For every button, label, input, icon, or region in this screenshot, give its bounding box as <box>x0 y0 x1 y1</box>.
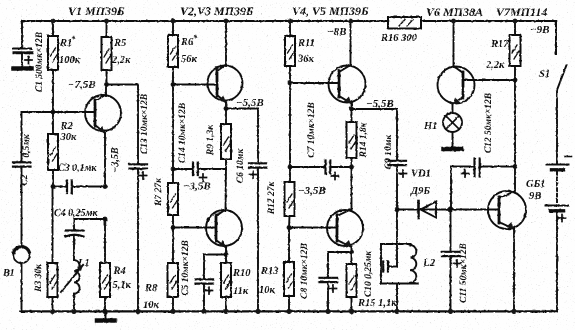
label R2 value <box>60 121 78 143</box>
wire collector V1 to C13 <box>107 85 139 164</box>
label R10 value <box>232 268 251 297</box>
wire base of V5 <box>289 227 337 229</box>
label C9 value <box>384 134 394 169</box>
capacitor C2 <box>13 162 31 166</box>
label C4 value <box>54 208 99 219</box>
label R16 value <box>380 33 418 44</box>
wire R17/V6 base to V7 collector <box>513 80 518 192</box>
resistor R9 <box>221 109 231 170</box>
resistor R15 <box>347 252 357 314</box>
resistor R12 <box>285 167 295 230</box>
capacitor C1 (electrolytic to ground at far left) <box>13 21 32 67</box>
label voltage -7,5В <box>68 79 96 91</box>
resistor R16 (series in rail) <box>388 17 421 29</box>
transistor V2 <box>208 19 243 111</box>
label voltage -5,5В (V4 emitter) <box>366 98 394 110</box>
transistor V7 <box>488 191 526 314</box>
label voltage -3,5В (V1 emitter) <box>110 147 121 173</box>
resistor R4 <box>100 219 110 314</box>
capacitor C7 <box>290 161 352 180</box>
label voltage -3,5В (V5 base) <box>298 185 326 197</box>
wire base of V1 <box>22 111 96 113</box>
capacitor C6 <box>226 109 267 315</box>
label B1 <box>2 268 15 279</box>
label voltage -5,5В (V2 emitter) <box>236 97 264 109</box>
wire R6 bottom to C14 <box>171 85 176 172</box>
capacitor C3 <box>53 181 105 194</box>
resistor R1 <box>48 21 58 112</box>
wire top supply rail left of R16 <box>22 20 388 22</box>
lamp H1 <box>443 113 462 147</box>
label R12 value <box>267 181 277 216</box>
transistor V1 <box>85 85 121 187</box>
label header V1 <box>68 4 125 18</box>
resistor R7 <box>168 169 178 230</box>
wire R11 bottom to R12 <box>288 83 293 169</box>
inductor L2 <box>381 244 418 314</box>
transistor V4 <box>329 19 366 112</box>
label voltage -8В <box>327 26 347 38</box>
label header V2,V3 <box>180 4 254 18</box>
label R14 value <box>359 121 369 158</box>
label C5 value <box>181 240 191 296</box>
diode VD1 <box>397 201 454 218</box>
label voltage -9В <box>530 24 550 36</box>
label header V4,V5 <box>292 4 369 18</box>
ground (below H1) <box>444 147 462 152</box>
resistor R11 <box>285 19 295 86</box>
label VD1 <box>410 169 431 198</box>
inductor L1 (variable) <box>61 260 83 314</box>
label C14 value <box>178 103 188 163</box>
capacitor C14 <box>173 163 226 182</box>
microphone B1 <box>13 112 29 311</box>
transistor V3 <box>206 169 242 257</box>
label C11 value <box>459 243 469 303</box>
label R17 value <box>485 39 509 71</box>
label R13 value <box>259 266 279 296</box>
wire top supply rail right of R16 <box>421 21 556 54</box>
label R7 value <box>154 177 164 207</box>
node R2 bottom / C3 <box>51 184 56 189</box>
resistor R3 <box>48 187 58 315</box>
resistor R13 <box>284 228 294 315</box>
capacitor C9 <box>352 109 407 212</box>
transistor V6 <box>438 19 475 113</box>
transistor V5 <box>327 167 363 254</box>
label R8 value <box>143 283 160 311</box>
ground (below C1) <box>14 66 32 71</box>
label R11 value <box>297 38 315 65</box>
capacitor C11 <box>442 210 461 315</box>
capacitor C4 <box>66 219 84 260</box>
wire base of V3 <box>173 227 216 229</box>
label S1 <box>539 69 550 80</box>
wire bottom common rail <box>21 310 556 312</box>
label R9 value <box>206 124 216 156</box>
battery GB1 <box>546 157 572 312</box>
label R3 value <box>34 263 44 293</box>
wire base of V7 <box>451 209 499 211</box>
label header V6 <box>426 5 483 19</box>
label voltage -3,5В (near C14) <box>183 181 211 193</box>
capacitor C5 <box>196 255 227 315</box>
label R15 value <box>357 298 397 309</box>
resistor R17 <box>510 19 521 80</box>
ground (main, below R4) <box>97 311 115 320</box>
capacitor C8 <box>320 252 352 314</box>
label C3 value <box>58 163 98 174</box>
label C10 value <box>364 250 374 297</box>
wire base of V6 <box>463 78 517 83</box>
label C2 value <box>20 133 32 185</box>
label R6 value <box>180 33 198 65</box>
label C8 value <box>300 243 310 299</box>
resistor R10 <box>221 255 231 315</box>
capacitor C12 <box>451 159 515 210</box>
label L1 <box>77 258 90 269</box>
capacitor C10 <box>381 244 397 284</box>
label header V7 <box>496 5 547 19</box>
label R4 value <box>113 266 132 291</box>
label C12 value <box>484 93 494 153</box>
label GB1 value <box>526 179 546 202</box>
switch S1 <box>556 21 567 163</box>
resistor R8 <box>168 228 179 315</box>
label C6 value <box>236 148 246 183</box>
resistor R5 <box>102 19 112 87</box>
label L2 <box>422 257 436 269</box>
label C7 value <box>307 102 317 158</box>
node R1/R2 junction <box>51 19 56 115</box>
wire C4 to emitter <box>74 184 107 221</box>
wire base of V4 <box>290 82 339 84</box>
capacitor C13 <box>130 164 148 314</box>
resistor R14 <box>347 109 357 169</box>
label C1 value <box>35 32 45 92</box>
resistor R6 <box>168 19 178 87</box>
label H1 <box>423 121 437 132</box>
label C13 value <box>140 94 150 154</box>
resistor R2 <box>48 112 58 187</box>
wire tank top <box>381 210 411 245</box>
wire base of V2 <box>173 84 217 86</box>
label R1 value <box>59 34 81 66</box>
label R5 value <box>111 38 131 66</box>
